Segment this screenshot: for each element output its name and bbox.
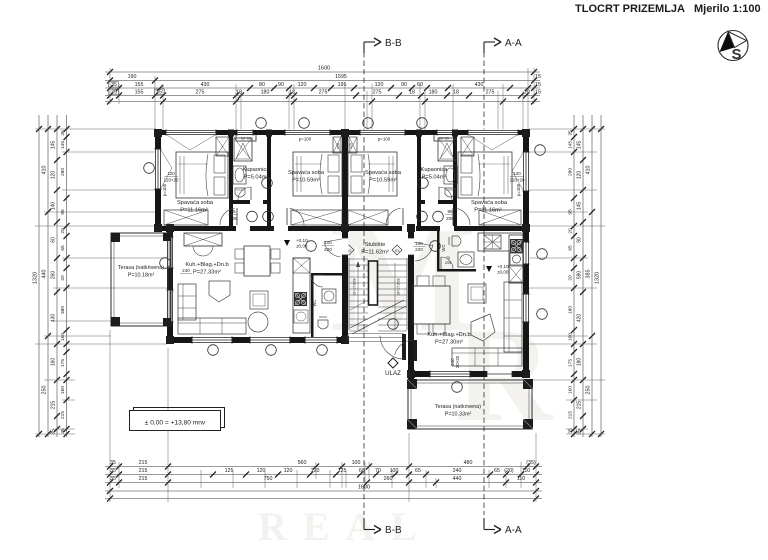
corner post top-right	[522, 129, 530, 137]
svg-text:WC: WC	[312, 300, 317, 307]
terrace left post top-right	[163, 233, 171, 241]
corner post top-left	[154, 129, 162, 137]
svg-text:P=11.62m²: P=11.62m²	[361, 250, 389, 256]
wc left door swing	[311, 275, 323, 287]
right dimension column 1	[573, 115, 575, 437]
svg-text:145: 145	[577, 202, 583, 211]
bed bedroom4	[458, 152, 512, 198]
svg-text:REAL: REAL	[258, 504, 433, 549]
kitchen right lower appliance	[510, 253, 523, 265]
window living bottom 1	[192, 337, 232, 344]
bottom dimension row4 1600	[105, 490, 542, 492]
living bottom wall right unit	[407, 371, 529, 377]
casement lines window bedroom1 left wall	[161, 150, 172, 168]
right dimension column outer 1320	[600, 115, 602, 437]
svg-text:Kupaonica: Kupaonica	[421, 167, 449, 173]
coffee table pentagon left	[209, 281, 230, 302]
section marker A-A bottom	[484, 518, 522, 536]
svg-text:155: 155	[135, 82, 144, 88]
svg-text:250: 250	[42, 386, 48, 395]
partition bath2-bedroom4	[453, 135, 457, 226]
svg-text:35: 35	[110, 468, 116, 474]
window bedroom2 top	[285, 130, 330, 136]
entrance door swing	[380, 336, 404, 359]
entry door opening in stair wall	[408, 238, 415, 255]
svg-text:Kuh.+Blag.+Dn.b: Kuh.+Blag.+Dn.b	[185, 262, 228, 268]
door opening bedroom2	[274, 226, 288, 232]
svg-text:65: 65	[568, 245, 574, 251]
post bed1-bath1 top	[228, 130, 234, 137]
svg-text:65: 65	[60, 245, 66, 251]
armchair right unit	[468, 284, 486, 303]
bath1 door swing	[238, 187, 251, 200]
wc right door swing	[441, 257, 453, 269]
terrace left outline	[111, 233, 171, 326]
label box under bath2 window	[434, 135, 454, 142]
wardrobe bedroom2	[291, 210, 342, 225]
svg-text:1320: 1320	[595, 272, 601, 284]
window living right 2	[523, 294, 530, 322]
left dimension column 3	[56, 115, 58, 437]
post stair wall top	[407, 224, 415, 232]
svg-text:16×17,9/28: 16×17,9/28	[353, 278, 357, 295]
svg-text:120: 120	[167, 171, 175, 176]
left dimension column outer 1320	[38, 115, 40, 437]
wardrobe bedroom2 top	[333, 137, 341, 153]
svg-text:20: 20	[568, 228, 574, 234]
svg-text:155: 155	[135, 89, 144, 95]
bath1 bottom wall	[233, 200, 267, 204]
svg-text:p=100: p=100	[516, 183, 521, 196]
wc right unit walls	[437, 231, 440, 271]
svg-text:420: 420	[577, 314, 583, 323]
window bath1 top	[237, 130, 253, 136]
sofa right unit horizontal	[452, 348, 522, 366]
post top party wall	[341, 129, 349, 137]
svg-text:(20): (20)	[504, 468, 514, 474]
svg-text:15: 15	[535, 82, 541, 88]
north arrow compass	[718, 31, 748, 64]
exterior wall left upper	[155, 130, 161, 231]
dining table right unit	[413, 286, 450, 324]
svg-text:Kuh.+Blag.+Dn.b: Kuh.+Blag.+Dn.b	[427, 332, 470, 338]
round table left unit	[248, 312, 268, 332]
top dimension chain row3	[105, 87, 540, 89]
living bottom wall left unit	[167, 337, 348, 343]
stair mark S3	[392, 245, 402, 255]
svg-text:215: 215	[51, 401, 57, 410]
svg-text:145: 145	[51, 141, 57, 150]
svg-text:90: 90	[577, 237, 583, 243]
window living bottom right	[430, 371, 470, 378]
party wall	[342, 130, 348, 343]
svg-text:440: 440	[42, 270, 48, 279]
exterior wall top	[155, 130, 529, 135]
svg-text:+0,10: +0,10	[497, 264, 509, 269]
svg-text:240: 240	[453, 468, 462, 474]
door swing bedroom3	[386, 208, 401, 225]
casement lines window bedroom1 top	[167, 135, 190, 150]
svg-text:410: 410	[42, 166, 48, 175]
top dimension chain row4	[105, 95, 540, 97]
svg-text:120+20: 120+20	[510, 178, 525, 183]
post party wall bottom	[341, 336, 349, 344]
window terrace door left	[167, 237, 174, 268]
svg-text:480: 480	[464, 460, 473, 466]
svg-text:145: 145	[568, 141, 574, 149]
bath1 shower	[234, 138, 252, 161]
window bedroom4 right	[523, 152, 530, 191]
svg-text:60+60: 60+60	[439, 137, 449, 141]
wardrobe bedroom3 top	[349, 137, 357, 153]
svg-text:P=10.33m²: P=10.33m²	[445, 412, 472, 418]
bath2 door swing	[439, 187, 452, 200]
stair right wall	[408, 226, 414, 380]
svg-text:190: 190	[128, 74, 137, 80]
svg-text:p=100: p=100	[299, 137, 312, 142]
svg-text:275: 275	[196, 89, 205, 95]
svg-text:1600: 1600	[318, 66, 330, 72]
svg-text:90: 90	[278, 82, 284, 88]
svg-text:Terasa (natkrivena): Terasa (natkrivena)	[118, 265, 164, 271]
left dimension column 2	[47, 115, 49, 437]
svg-text:275: 275	[319, 89, 328, 95]
window living bottom 3	[305, 337, 337, 344]
chairs right unit	[417, 276, 429, 286]
svg-text:18: 18	[453, 89, 459, 95]
top dimension chain row2	[105, 80, 540, 82]
svg-text:430: 430	[201, 82, 210, 88]
kitchen left sink	[294, 310, 308, 323]
section line A-A	[483, 52, 485, 515]
window living left 2	[167, 290, 174, 322]
svg-text:15: 15	[535, 74, 541, 80]
door leaf terrace right	[413, 340, 417, 361]
door swing bedroom4	[455, 208, 470, 225]
post right wall bottom	[522, 370, 530, 378]
svg-text:± 0,00 = +13,80 mnv: ± 0,00 = +13,80 mnv	[145, 420, 206, 427]
bed bedroom1	[176, 152, 228, 198]
section marker B-B top	[364, 38, 402, 53]
chairs left unit	[235, 249, 244, 259]
bath2 washbasin	[444, 166, 457, 184]
left extension ticks	[35, 128, 156, 130]
svg-text:260: 260	[51, 271, 57, 280]
svg-text:120: 120	[311, 468, 320, 474]
bottom dimension row3	[105, 482, 542, 484]
toilet left unit	[318, 320, 328, 329]
svg-text:120: 120	[577, 171, 583, 180]
terrace right post tl	[407, 379, 417, 389]
svg-text:160: 160	[568, 333, 574, 341]
sofa L left unit horizontal	[178, 318, 246, 334]
staircase treads left flight	[349, 258, 368, 260]
post bed3-bath2 top	[416, 130, 422, 137]
bed bedroom2	[293, 152, 342, 196]
svg-text:P=10.59m²: P=10.59m²	[292, 178, 320, 184]
level mark right unit	[486, 266, 492, 272]
svg-text:1600: 1600	[358, 485, 370, 491]
svg-text:P=5.04m²: P=5.04m²	[422, 175, 447, 181]
svg-text:120: 120	[337, 143, 341, 149]
section marker B-B bottom	[364, 518, 402, 536]
svg-text:+0,10: +0,10	[296, 238, 308, 243]
svg-text:35: 35	[60, 130, 66, 136]
bottom dimension baseline	[105, 498, 542, 500]
post left wall mid	[154, 224, 162, 232]
bath1 washbasin	[233, 166, 246, 184]
svg-text:160: 160	[568, 386, 574, 394]
section marker A-A top	[484, 38, 522, 53]
entrance marker diamond	[388, 358, 398, 368]
svg-text:A-A: A-A	[505, 38, 522, 49]
svg-text:85: 85	[230, 209, 236, 214]
svg-text:215: 215	[577, 401, 583, 410]
svg-text:15: 15	[535, 89, 541, 95]
svg-text:Spavaća soba: Spavaća soba	[288, 170, 325, 176]
svg-text:Stubište: Stubište	[365, 242, 386, 248]
svg-text:220: 220	[324, 247, 332, 252]
door swing bedroom1	[220, 208, 235, 225]
door swing right unit entry	[415, 245, 433, 261]
svg-text:60: 60	[51, 237, 57, 243]
washing machine left unit	[322, 289, 336, 303]
staircase side walls	[348, 258, 350, 330]
svg-text:Kupaonica: Kupaonica	[243, 167, 271, 173]
svg-text:WC: WC	[441, 245, 446, 252]
bath2 toilet	[445, 188, 455, 197]
window bath2 top	[437, 130, 453, 136]
svg-text:70: 70	[375, 468, 381, 474]
svg-text:B-B: B-B	[385, 38, 402, 49]
left dimension column 4	[66, 115, 68, 437]
window living bottom 2	[250, 337, 290, 344]
svg-text:20×20: 20×20	[455, 355, 460, 368]
svg-text:Spavaća soba: Spavaća soba	[177, 200, 214, 206]
svg-text:120: 120	[298, 82, 307, 88]
svg-text:20: 20	[60, 275, 66, 281]
staircase treads right flight	[378, 258, 407, 260]
bed bedroom3	[348, 152, 397, 196]
svg-text:440: 440	[453, 476, 462, 482]
kitchen left unit counter	[293, 258, 310, 333]
svg-text:120: 120	[284, 468, 293, 474]
terrace door right unit	[487, 371, 512, 378]
casement lines window bedroom4 top	[469, 135, 492, 150]
toilet right unit	[452, 236, 461, 246]
post right wall mid	[522, 224, 530, 232]
wardrobe bedroom1 top	[216, 137, 229, 156]
svg-text:S: S	[731, 46, 741, 63]
svg-text:215: 215	[139, 476, 148, 482]
svg-text:1320: 1320	[33, 272, 39, 284]
watermark	[258, 192, 554, 549]
kitchen right sink	[484, 235, 501, 249]
top dimension baseline	[105, 101, 540, 103]
wardrobe bedroom3	[348, 210, 388, 225]
wardrobe bedroom4	[479, 210, 521, 225]
sofa L left unit vertical	[178, 284, 196, 320]
svg-text:B-B: B-B	[385, 525, 402, 536]
top dimension chain 1600	[105, 71, 540, 73]
svg-text:80: 80	[259, 82, 265, 88]
top extension lines	[109, 68, 111, 104]
svg-text:385: 385	[586, 270, 592, 279]
svg-text:P=11.16m²: P=11.16m²	[180, 208, 208, 214]
svg-text:20: 20	[568, 275, 574, 281]
svg-text:180: 180	[429, 89, 438, 95]
svg-text:180: 180	[568, 306, 574, 314]
dining table left unit	[244, 246, 270, 276]
svg-text:35: 35	[110, 476, 116, 482]
terrace right post tr	[523, 379, 533, 389]
svg-text:ULAZ: ULAZ	[385, 370, 401, 377]
door opening bedroom3	[402, 226, 416, 232]
svg-text:175: 175	[60, 359, 66, 367]
svg-text:90: 90	[401, 82, 407, 88]
bottom extension lines	[109, 330, 111, 502]
svg-text:250: 250	[586, 386, 592, 395]
stair mark S2	[344, 245, 354, 255]
bedroom band bottom wall	[155, 226, 529, 231]
kitchen left stove	[294, 292, 307, 306]
kitchen left fridge	[293, 258, 310, 273]
staircase center stringer	[369, 261, 378, 305]
post party wall mid	[341, 224, 349, 232]
svg-text:380: 380	[60, 306, 66, 314]
svg-text:P=5.04m²: P=5.04m²	[244, 175, 269, 181]
svg-text:160: 160	[60, 333, 66, 341]
svg-text:Terasa (natkrivena): Terasa (natkrivena)	[435, 404, 481, 410]
coffee table pentagon right	[471, 314, 495, 341]
svg-text:Mjerilo 1:100: Mjerilo 1:100	[694, 3, 761, 15]
svg-text:A-A: A-A	[505, 525, 522, 536]
svg-text:125: 125	[225, 468, 234, 474]
bath2 bottom wall	[421, 200, 453, 204]
sofa right unit vertical	[504, 282, 522, 352]
svg-text:P=27.33m²: P=27.33m²	[193, 270, 221, 276]
fireplace left unit	[184, 233, 222, 246]
svg-text:215: 215	[139, 468, 148, 474]
window bedroom4 top	[468, 130, 518, 136]
washbasin right unit	[458, 252, 474, 267]
kitchen right fridge	[509, 266, 523, 283]
svg-text:120: 120	[375, 82, 384, 88]
door swing bedroom2	[289, 208, 304, 225]
terrace left post bottom-right	[163, 318, 171, 326]
section line B-B	[363, 52, 365, 515]
svg-text:85: 85	[447, 209, 453, 214]
wardrobe bedroom1	[164, 210, 208, 225]
casement lines window bedroom4 right wall	[512, 153, 523, 171]
post living left bottom	[166, 336, 174, 344]
label box under bath1 window	[236, 135, 256, 142]
svg-text:S3: S3	[395, 248, 401, 253]
svg-text:145: 145	[577, 141, 583, 150]
terrace door swing right	[395, 340, 414, 355]
wardrobe bedroom4 top	[461, 137, 474, 156]
svg-text:145: 145	[60, 141, 66, 149]
right dimension column 3	[591, 115, 593, 437]
svg-text:215: 215	[60, 411, 66, 419]
door opening bedroom4	[440, 226, 454, 232]
terrace right post bl	[407, 419, 417, 429]
terrace left post bottom	[111, 317, 120, 326]
right extension ticks	[529, 128, 605, 130]
svg-text:240: 240	[182, 268, 190, 273]
svg-text:P=27.30m²: P=27.30m²	[435, 340, 463, 346]
window bedroom3 top	[360, 130, 405, 136]
svg-text:p=100: p=100	[378, 137, 391, 142]
svg-text:18: 18	[409, 89, 415, 95]
svg-text:TLOCRT PRIZEMLJA: TLOCRT PRIZEMLJA	[575, 3, 685, 15]
level annotation box	[134, 408, 225, 428]
staircase arrow	[357, 263, 359, 330]
svg-text:Spavaća soba: Spavaća soba	[471, 200, 508, 206]
entrance steps	[348, 333, 404, 335]
svg-text:280: 280	[568, 168, 574, 176]
terrace left post top	[111, 233, 120, 242]
terrace right outline	[408, 380, 532, 429]
svg-text:(35): (35)	[526, 460, 536, 466]
svg-text:120: 120	[513, 171, 521, 176]
svg-text:205: 205	[229, 216, 237, 221]
svg-text:Spavaća soba: Spavaća soba	[365, 170, 402, 176]
svg-text:±0,00: ±0,00	[497, 270, 509, 275]
right dimension column 2	[582, 115, 584, 437]
kitchen right stove	[510, 239, 523, 253]
svg-text:65: 65	[415, 468, 421, 474]
exterior wall right	[523, 130, 529, 377]
entrance door leaf	[402, 334, 406, 360]
svg-text:60: 60	[359, 468, 365, 474]
svg-text:260: 260	[384, 476, 393, 482]
kitchen right wall strip	[509, 235, 523, 283]
bottom dimension row1	[105, 466, 542, 468]
svg-text:120+20: 120+20	[164, 178, 179, 183]
svg-text:16×17,9/28: 16×17,9/28	[397, 278, 401, 295]
svg-text:120: 120	[51, 171, 57, 180]
svg-text:P=10.18m²: P=10.18m²	[128, 273, 155, 279]
svg-text:P=10.59m²: P=10.59m²	[369, 178, 397, 184]
window living right 1	[523, 242, 530, 264]
partition bath1-bedroom2	[267, 135, 271, 226]
svg-text:590: 590	[577, 271, 583, 280]
svg-text:140: 140	[51, 202, 57, 211]
kitchen right unit counter	[478, 233, 523, 251]
post bath1-bed2 top	[266, 130, 272, 137]
door opening bedroom1	[236, 226, 250, 232]
svg-text:65: 65	[494, 468, 500, 474]
svg-text:60+60: 60+60	[241, 137, 251, 141]
circle markers	[256, 118, 267, 129]
svg-text:1595: 1595	[335, 74, 347, 80]
svg-text:410: 410	[586, 166, 592, 175]
window bedroom1 top	[166, 130, 216, 136]
wc left unit walls	[311, 273, 314, 337]
door swing living left top	[324, 242, 340, 257]
svg-text:275: 275	[486, 89, 495, 95]
svg-text:110: 110	[522, 468, 530, 474]
post bath2-bed4 top	[452, 130, 458, 137]
svg-text:20: 20	[524, 89, 530, 95]
svg-text:120: 120	[257, 468, 266, 474]
svg-text:180: 180	[577, 358, 583, 367]
bath1 toilet	[235, 188, 245, 197]
svg-text:20: 20	[60, 228, 66, 234]
bath2 shower	[438, 138, 456, 161]
svg-text:160: 160	[51, 358, 57, 367]
